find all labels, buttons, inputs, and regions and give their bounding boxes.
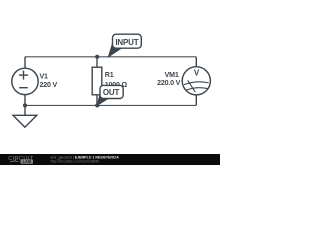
svg-text:V1: V1 [40,73,49,81]
svg-text:220.0 V: 220.0 V [157,79,181,87]
voltmeter VM1 [182,67,210,95]
flag INPUT tail [108,43,121,56]
wire bottom horizontal [25,104,196,106]
flag OUT box [100,85,123,98]
resistor R1 body [92,67,102,95]
wire VM1 bottom lead [195,95,197,106]
svg-text:LAB: LAB [22,159,31,164]
svg-text:INPUT: INPUT [115,38,138,47]
footer logo LAB [10,160,18,161]
wire V1 bottom lead [24,95,26,106]
footer bar [0,154,220,165]
wire VM1 top lead [195,57,197,67]
svg-text:OUT: OUT [103,88,120,97]
wire top horizontal [25,56,196,58]
wire ground stub [24,105,26,115]
svg-text:V: V [194,69,200,78]
svg-text:http://circuitlab.com/c/e2hm85: http://circuitlab.com/c/e2hm8546 [51,159,100,163]
ground [13,115,37,127]
flag INPUT box [113,34,142,48]
wire V1 top lead [24,57,26,69]
node junction top [95,55,99,59]
node junction bottom [95,103,99,107]
node dot V1 bottom [23,103,27,107]
flag OUT tail [97,93,108,105]
svg-text:220 V: 220 V [40,81,58,89]
voltage source V1 [12,68,38,94]
svg-text:R1: R1 [105,71,114,79]
resistor R1 bottom lead [96,95,98,106]
svg-text:VM1: VM1 [165,71,179,79]
resistor R1 top lead [96,57,98,67]
